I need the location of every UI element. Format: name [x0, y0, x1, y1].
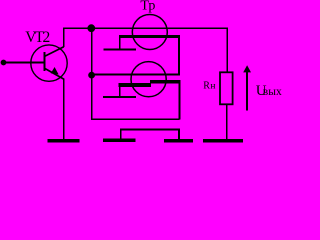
svg-text:вых: вых	[263, 86, 282, 98]
svg-text:VT2: VT2	[25, 29, 49, 46]
svg-text:н: н	[210, 82, 215, 92]
svg-text:Тр: Тр	[140, 0, 155, 13]
svg-text:R: R	[203, 81, 210, 92]
